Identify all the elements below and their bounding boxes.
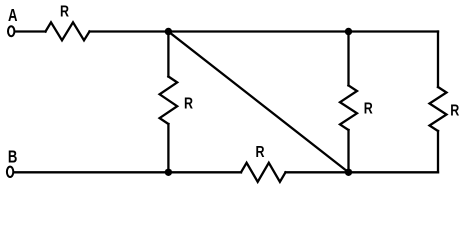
- svg-text:R: R: [364, 100, 374, 118]
- svg-text:R: R: [450, 102, 460, 120]
- svg-text:R: R: [60, 3, 70, 21]
- svg-text:R: R: [184, 95, 194, 113]
- svg-text:R: R: [255, 144, 265, 162]
- svg-text:A: A: [8, 6, 17, 25]
- svg-text:B: B: [8, 148, 17, 167]
